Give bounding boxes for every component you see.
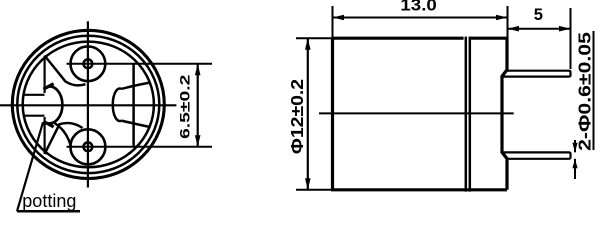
body outline [333, 38, 508, 190]
pin 1 circle (top) [71, 46, 106, 81]
svg-text:2-Φ0.6±0.05: 2-Φ0.6±0.05 [575, 32, 595, 151]
left vertical line upper [43, 56, 45, 93]
bottom pin [502, 152, 571, 158]
left vertical line lower [43, 117, 45, 154]
pin diameter leader lower with arrow [574, 159, 576, 179]
horizontal centerline [0, 104, 176, 106]
dimension 6.5 line with arrows [197, 64, 199, 147]
potting underline [17, 210, 80, 213]
side view horizontal centerline [319, 112, 514, 114]
wire to pin 2 diagonal [45, 123, 83, 154]
pin 2 circle (bottom) [70, 129, 105, 164]
coil top tick [43, 84, 53, 90]
left slot upper line [24, 94, 45, 96]
potting leader line [17, 122, 43, 211]
coil bottom tick [43, 121, 53, 127]
svg-text:13.0: 13.0 [400, 0, 436, 15]
left slot lower line [24, 115, 45, 117]
dimension phi12 bottom extension [296, 189, 333, 191]
ring 3 [23, 42, 154, 168]
dimension 13.0 extension line left [332, 6, 334, 38]
pin diameter leader upper [574, 140, 576, 152]
svg-text:Φ12±0.2: Φ12±0.2 [287, 79, 307, 154]
dimension 13.0/5 shared extension line [507, 6, 509, 38]
outer case circle [12, 30, 164, 178]
wire to pin 1 [45, 56, 86, 86]
dimension 5 line [508, 28, 571, 30]
dimension phi12 top extension [296, 37, 333, 39]
vertical centerline [87, 21, 89, 187]
right slot bottom edge [121, 121, 149, 127]
pin 2 center dot [84, 142, 93, 151]
pin 1 center dot [84, 59, 93, 68]
dimension 13.0 line [333, 17, 508, 19]
ring 2 [17, 36, 159, 173]
right slot top edge [121, 83, 149, 89]
svg-text:5: 5 [534, 6, 543, 24]
top pin [502, 71, 571, 77]
pin 2 horizontal centerline / extension line [67, 146, 213, 148]
svg-text:potting: potting [22, 191, 76, 211]
svg-text:6.5±0.2: 6.5±0.2 [177, 75, 193, 139]
dimension phi12 line [307, 38, 309, 190]
flange seam line 1 [465, 37, 468, 192]
wire to pin 2 from coil [55, 123, 71, 146]
pin 1 horizontal centerline / extension line [67, 63, 213, 65]
vertical line through sound hole connecting pin centerlines [132, 64, 135, 147]
right slot left cap [113, 88, 122, 121]
flange seam line 2 [469, 37, 472, 192]
dimension 5 extension line at pin tip [570, 8, 572, 69]
right vertical reference line [593, 31, 595, 150]
left coil half-ellipse [48, 86, 63, 123]
